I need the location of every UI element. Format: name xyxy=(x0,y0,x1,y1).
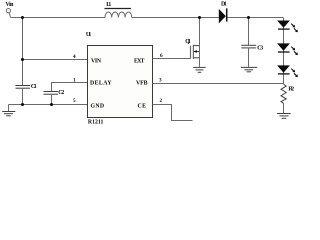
svg-text:VIN: VIN xyxy=(91,58,102,64)
svg-text:R1211: R1211 xyxy=(88,119,104,125)
svg-text:GND: GND xyxy=(91,103,105,109)
svg-text:L1: L1 xyxy=(106,2,111,8)
svg-text:1: 1 xyxy=(73,78,76,84)
svg-text:DELAY: DELAY xyxy=(90,81,112,87)
svg-text:6: 6 xyxy=(160,53,163,59)
svg-text:2: 2 xyxy=(160,98,163,104)
svg-text:C3: C3 xyxy=(257,46,263,52)
svg-text:Vin: Vin xyxy=(6,2,15,8)
svg-text:4: 4 xyxy=(73,54,76,60)
svg-text:Q1: Q1 xyxy=(185,39,191,45)
svg-text:D1: D1 xyxy=(221,2,227,8)
svg-text:U1: U1 xyxy=(86,32,91,38)
svg-text:C2: C2 xyxy=(58,90,64,96)
svg-text:5: 5 xyxy=(73,98,76,104)
svg-text:C1: C1 xyxy=(31,84,37,90)
svg-text:EXT: EXT xyxy=(134,58,145,64)
svg-text:CE: CE xyxy=(138,103,147,109)
svg-text:R2: R2 xyxy=(288,86,294,92)
svg-text:3: 3 xyxy=(159,78,162,84)
svg-text:VFB: VFB xyxy=(136,81,148,87)
